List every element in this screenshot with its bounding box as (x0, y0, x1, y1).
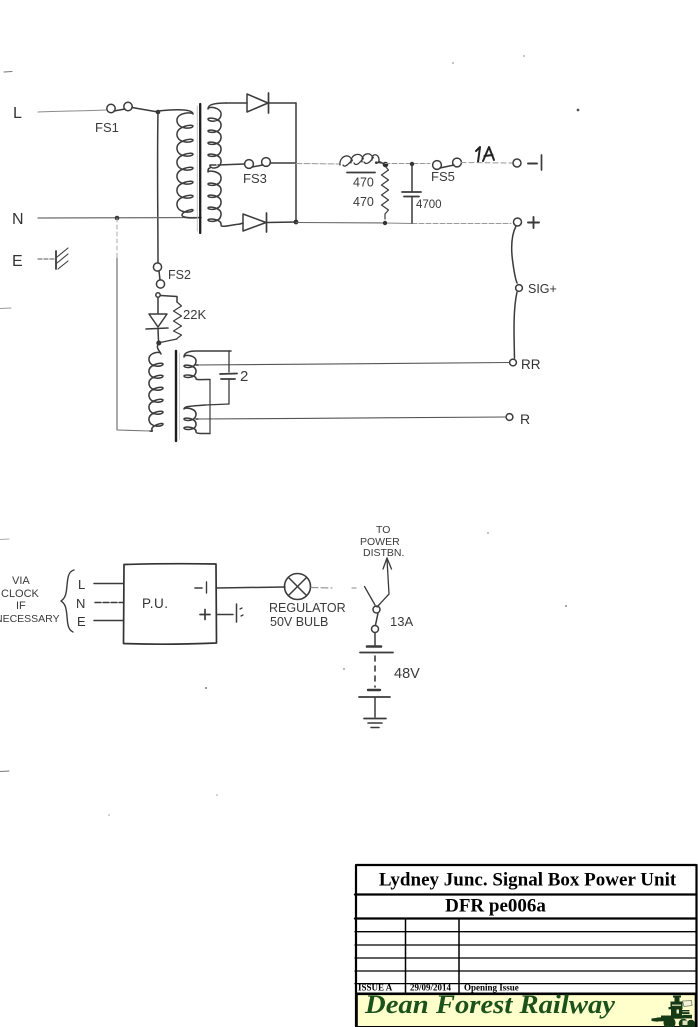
svg-text:N: N (76, 596, 85, 611)
svg-text:L: L (13, 105, 22, 122)
wire FS1 to node (132, 108, 158, 113)
label VIA CLOCK IF NECESSARY (0, 575, 60, 625)
svg-text:FS1: FS1 (95, 120, 119, 135)
terminal SIG+ (516, 282, 557, 296)
fuse FS2 (153, 263, 191, 288)
transformer T1 primary winding (158, 110, 201, 218)
drawing number row divider (355, 917, 697, 919)
earth symbol (56, 248, 68, 269)
wire E input (38, 258, 54, 260)
wire node to FS5 (faint) (385, 163, 430, 165)
wire choke to node (379, 162, 386, 165)
brace (61, 570, 74, 632)
svg-text:DFR pe006a: DFR pe006a (445, 896, 546, 917)
wire E to PU (94, 620, 123, 622)
resistor 22K (160, 302, 206, 343)
LED indicator diode (146, 298, 168, 341)
wire FS5 to minus terminal (faint) (461, 162, 512, 165)
svg-text:FS5: FS5 (431, 169, 455, 184)
node junction L/T1 (156, 110, 161, 115)
svg-text:N: N (12, 211, 24, 228)
node below FS2 (156, 293, 160, 297)
wire FS3 to choke (faint) (270, 162, 296, 164)
svg-text:2: 2 (240, 368, 248, 385)
wire R line (196, 417, 506, 419)
diode D1 top (226, 102, 247, 104)
svg-text:L: L (78, 577, 85, 592)
wire lamp to switch (dashed) (311, 587, 332, 590)
terminal plus (514, 217, 540, 228)
resistor 470 (353, 166, 389, 219)
svg-text:50V BULB: 50V BULB (270, 615, 328, 629)
svg-text:DISTBN.: DISTBN. (363, 547, 404, 559)
title row divider (355, 893, 697, 895)
TITLEBLOCK (355, 865, 697, 1027)
earth stub symbol (237, 604, 244, 622)
terminal minus (513, 155, 542, 170)
svg-text:IF: IF (16, 600, 26, 612)
svg-text:R: R (520, 411, 530, 427)
wire N to PU (95, 602, 123, 604)
svg-text:REGULATOR: REGULATOR (269, 601, 346, 615)
wire SIG+ down to RR (514, 292, 517, 358)
terminal RR (510, 357, 541, 372)
svg-text:P.U.: P.U. (142, 596, 169, 611)
svg-text:22K: 22K (183, 307, 206, 322)
svg-text:NECESSARY: NECESSARY (0, 613, 60, 625)
node junction diode output (294, 220, 299, 225)
transformer T2 core (175, 351, 177, 441)
svg-text:CLOCK: CLOCK (1, 588, 40, 600)
svg-text:VIA: VIA (12, 575, 30, 587)
transformer T1 core (199, 104, 201, 233)
wire N input (38, 217, 201, 220)
wire node down to FS2 (157, 112, 159, 263)
svg-text:Dean Forest Railway: Dean Forest Railway (364, 990, 616, 1019)
arrow to power distribution (377, 558, 392, 607)
title block outer frame (356, 865, 697, 1027)
svg-text:13A: 13A (390, 614, 413, 629)
wire PU minus output to bulb (216, 587, 285, 588)
fuse FS5 (431, 158, 461, 184)
wire diode outputs join (295, 103, 297, 222)
wire top winding bottom corner down (209, 380, 211, 434)
svg-text:48V: 48V (394, 666, 420, 682)
revision table column lines (405, 919, 407, 994)
svg-text:Lydney Junc. Signal Box Power: Lydney Junc. Signal Box Power Unit (379, 870, 677, 891)
wire RR line (196, 363, 509, 366)
transformer T1 secondary winding (208, 103, 240, 226)
inductor choke 470 (340, 154, 381, 190)
svg-text:TO: TO (376, 524, 390, 536)
svg-text:FS3: FS3 (243, 171, 267, 186)
fuse FS3 (243, 158, 270, 186)
fuse FS1 (95, 102, 132, 135)
capacitor C2 (205, 351, 248, 405)
wire bottom winding tap to R (196, 418, 198, 420)
terminal R (506, 411, 530, 427)
switch 13A blade (365, 587, 376, 606)
svg-text:E: E (12, 253, 23, 270)
battery 48V (359, 633, 420, 718)
locomotive logo (652, 996, 696, 1027)
node junction resistor bottom (383, 221, 387, 225)
node junction choke/resistor (383, 162, 389, 168)
transformer T2 primary winding (149, 343, 163, 431)
lamp regulator bulb (269, 574, 346, 630)
capacitor C1 4700 (402, 162, 442, 223)
wire top winding mid to RR (tap) (196, 364, 198, 366)
transformer T2 secondary top winding (184, 351, 231, 380)
revision table row lines (355, 931, 697, 933)
wire L to PU (94, 583, 123, 585)
wire L input (38, 110, 106, 112)
switch 13A (372, 606, 414, 633)
svg-text:SIG+: SIG+ (528, 282, 557, 296)
wire bottom positive rail (296, 222, 385, 225)
transformer T2 secondary bottom winding (184, 405, 210, 434)
wire N feed down to T2 (faint) (116, 218, 118, 258)
svg-text:470: 470 (353, 176, 374, 190)
wire PU plus stub (217, 614, 234, 616)
label TO POWER DISTBN (360, 524, 404, 559)
svg-text:RR: RR (521, 357, 541, 372)
wire node to resistor branch (161, 296, 178, 303)
label 1A (476, 147, 494, 162)
svg-text:4700: 4700 (416, 199, 442, 211)
railway banner (357, 994, 697, 1027)
power unit box PU (124, 564, 217, 645)
stray scan marks (0, 55, 579, 816)
wire plus terminal down to SIG+ (512, 226, 517, 283)
svg-text:E: E (77, 614, 86, 629)
ground symbol battery (364, 719, 386, 728)
node junction above T2 (156, 341, 161, 346)
svg-text:FS2: FS2 (168, 268, 191, 282)
node junction N (115, 216, 120, 221)
svg-text:470: 470 (353, 195, 374, 209)
diode D2 bottom (240, 223, 243, 224)
wire T1 secondary centre tap to FS3 (218, 164, 244, 165)
